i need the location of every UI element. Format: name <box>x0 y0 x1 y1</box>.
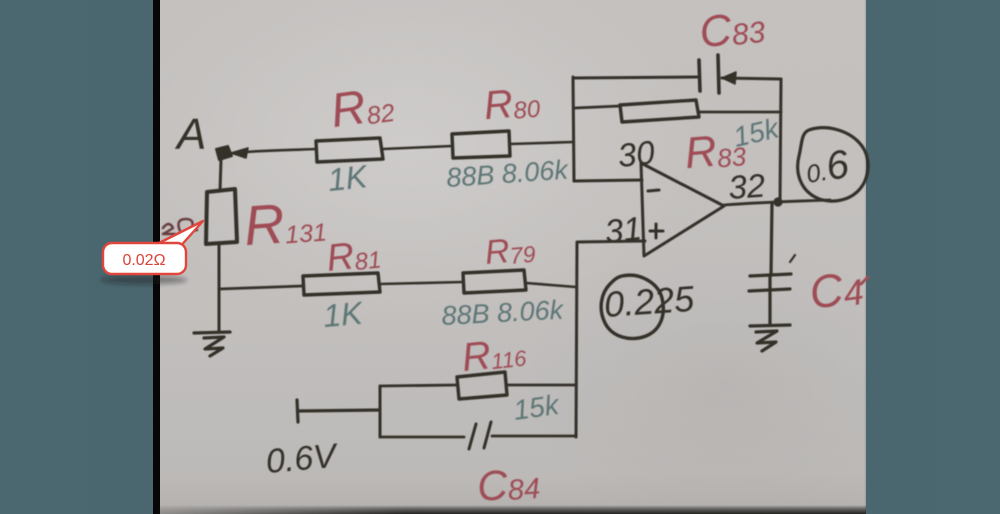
scribble 0.02 ohm original <box>163 219 197 234</box>
source 0.6V terminal <box>297 400 380 422</box>
wire R81 to R79 <box>380 282 463 284</box>
label C4 edge tick <box>861 277 868 284</box>
capacitor C84 <box>469 422 491 449</box>
svg-text:0.02Ω: 0.02Ω <box>122 252 165 269</box>
resistor R116 <box>457 372 507 399</box>
wire to op-amp inverting input <box>574 180 642 181</box>
callout 0.02 ohm <box>101 221 203 285</box>
op-amp U1 <box>641 163 724 256</box>
wire R116 branch left vertical <box>379 386 382 437</box>
wire R116 branch top <box>380 385 576 386</box>
annotation 0.225 circled <box>601 275 696 338</box>
resistor R83 <box>620 100 699 122</box>
ground (C4) <box>750 325 790 351</box>
annotation 0.6 circled <box>798 128 868 201</box>
label R79 <box>483 230 536 272</box>
wire feedback right vertical <box>780 79 781 202</box>
value 15k (R116) <box>512 389 563 426</box>
node output junction <box>773 197 782 206</box>
value 1K (R81) <box>322 295 366 334</box>
wire feedback left vertical <box>573 77 574 181</box>
wire node A to R82 <box>246 149 316 152</box>
ground (R131) <box>194 332 230 356</box>
resistor R82 <box>316 138 383 162</box>
wire R131 bottom <box>218 244 221 331</box>
wire R83 left <box>575 106 620 108</box>
wire non-inverting input <box>576 241 645 437</box>
capacitor C83 <box>699 55 736 93</box>
label R82 <box>328 77 397 138</box>
label 0.6V <box>264 437 340 481</box>
wire feedback top <box>573 77 781 79</box>
wire C84 branch <box>380 436 576 437</box>
label R81 <box>325 233 383 280</box>
pin 32 <box>727 167 766 206</box>
label C84 <box>476 459 542 510</box>
label R116 <box>460 330 529 381</box>
resistor R131 <box>206 189 237 244</box>
node A <box>174 110 248 160</box>
value 15k (R83) <box>730 112 783 153</box>
label C83 <box>697 2 767 58</box>
wire output <box>724 200 830 205</box>
resistor R81 <box>303 273 380 295</box>
capacitor C4 <box>749 203 795 325</box>
wire R83 right <box>699 111 781 114</box>
label C4 <box>806 260 866 319</box>
wire R82 to R80 <box>383 146 452 149</box>
resistor R79 <box>463 270 526 293</box>
label R83 <box>683 124 748 178</box>
wire R131 top <box>220 160 221 191</box>
pin 30 <box>616 133 657 174</box>
value 1K (R82) <box>326 158 370 198</box>
wire R131 to R81 <box>219 286 302 289</box>
pin 31 <box>603 209 643 250</box>
value 88B 8.06k (R79) <box>441 295 565 331</box>
resistor R80 <box>452 131 510 158</box>
wire R79 to summing vertical <box>526 283 576 287</box>
label R131 <box>242 189 328 258</box>
value 88B 8.06k (R80) <box>445 154 570 193</box>
wire R80 to feedback node <box>510 142 573 144</box>
label R80 <box>482 79 542 128</box>
